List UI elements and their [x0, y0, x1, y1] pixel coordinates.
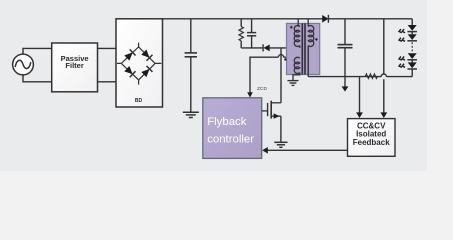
MOSFET source arrow [274, 113, 280, 118]
wire MOSFET source to ground [280, 116, 282, 142]
wire secondary bottom to output rail [307, 46, 309, 77]
ground (input cap) [183, 112, 199, 117]
wire feedback to controller [268, 149, 348, 151]
diode D3 (lower-left, pointing SE) [124, 66, 136, 78]
wire primary bottom to drain [299, 45, 301, 48]
diode D4 (lower-right, pointing NE) [141, 66, 153, 78]
svg-text:BD: BD [135, 98, 143, 104]
ground (MOSFET source) [274, 142, 287, 147]
wire hop over rail [381, 74, 386, 77]
wire CC sense down to feedback box [359, 77, 361, 113]
svg-text:Filter: Filter [65, 61, 83, 70]
svg-text:controller: controller [207, 134, 254, 146]
svg-text:Feedback: Feedback [353, 138, 390, 147]
wire Passive Filter to bridge (bottom) [98, 81, 117, 83]
ground (aux winding) [288, 81, 299, 86]
LED LD2 [408, 34, 417, 40]
wire aux to ground [293, 73, 300, 81]
transformer T1 block [287, 23, 320, 74]
svg-text:Isolated: Isolated [356, 129, 386, 138]
output return rail [308, 76, 381, 78]
aux polarity dot [284, 58, 286, 60]
capacitor C1 (input bulk cap) [185, 19, 197, 112]
diode D6 (output rectifier) [322, 15, 328, 23]
CC&CV feedback box [348, 119, 396, 157]
MOSFET Q1 [262, 101, 281, 119]
arrow to return (below rail) [344, 77, 346, 87]
transformer core [301, 23, 303, 74]
LED LD1 [408, 25, 417, 31]
secondary winding [308, 19, 314, 47]
LED LD4 [408, 62, 417, 68]
resistor R1 (snubber) [239, 19, 243, 48]
Passive Filter box [52, 43, 98, 92]
diode D5 (clamp) [263, 44, 300, 51]
wire drain vertical [280, 48, 282, 103]
wire CV sense from top bus to feedback box [383, 19, 385, 74]
arrow into controller [262, 147, 268, 154]
resistor R2 (current sense, in rail) [365, 74, 377, 78]
wire snubber bottom junction [241, 47, 262, 49]
diode D1 (upper-left, pointing NE) [124, 49, 136, 61]
LED LD3 [408, 53, 417, 59]
wire top DC bus [163, 18, 413, 20]
primary polarity dot [290, 26, 292, 28]
secondary polarity dot [315, 38, 317, 40]
wire AC bottom to Passive Filter [23, 75, 52, 82]
ZCD arrow into controller [247, 92, 253, 97]
svg-text:Flyback: Flyback [207, 116, 247, 128]
diode D2 (upper-right, pointing SE) [141, 49, 153, 61]
LED glow marks [399, 29, 406, 68]
bridge diamond wires [117, 43, 161, 85]
dashed wire (more LEDs) [411, 42, 413, 52]
svg-text:ZCD: ZCD [257, 86, 267, 92]
wire ZCD tap [284, 57, 300, 58]
capacitor C2 (snubber) [247, 19, 256, 48]
auxiliary winding [294, 57, 300, 73]
flyback controller U1 box [203, 98, 262, 159]
bridge rectifier BD box [116, 19, 163, 107]
primary winding [294, 19, 300, 47]
wire Passive Filter to bridge (top) [98, 47, 117, 49]
LED string (4 LEDs) [407, 19, 417, 77]
AC source V1 [13, 54, 34, 75]
wire AC top to Passive Filter [23, 48, 52, 54]
capacitor C3 (output cap) [338, 19, 353, 77]
